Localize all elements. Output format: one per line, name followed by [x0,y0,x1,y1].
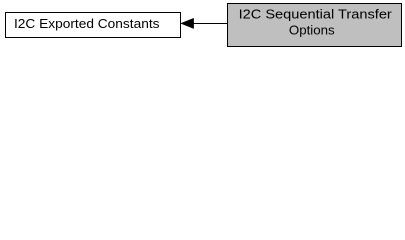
svg-text:Options: Options [289,24,335,38]
node: I2C Exported Constants (box) [6,13,181,38]
svg-text:I2C Sequential Transfer: I2C Sequential Transfer [239,8,392,22]
svg-text:I2C Exported Constants: I2C Exported Constants [14,17,160,31]
node: I2C Sequential Transfer Options (current, gray) [228,4,402,47]
edge arrow: Sequential Transfer Options -> Exported Constants [181,18,228,28]
background [0,0,405,51]
